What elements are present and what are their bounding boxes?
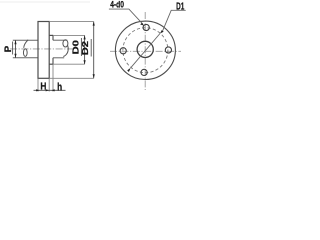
arrow D1 upper-right: [160, 30, 164, 34]
arrow D1 lower-left: [127, 68, 131, 72]
arrow D0 top: [84, 35, 86, 39]
svg-text:h: h: [57, 81, 62, 93]
leader D1: [163, 10, 186, 30]
hub right edge: [52, 35, 54, 40]
shaft break symbol left: [23, 40, 28, 57]
arrow H left: [36, 89, 40, 91]
svg-text:D1: D1: [176, 1, 184, 12]
extension line h right (hub edge): [52, 64, 54, 91]
bolt hole right: [165, 47, 171, 53]
dimension D2 line: [93, 22, 95, 79]
bolt hole top: [143, 24, 149, 30]
arrow P top: [14, 40, 16, 44]
svg-text:P: P: [3, 46, 13, 53]
label D0 underline: [80, 38, 82, 56]
centerline vertical (front view): [144, 12, 146, 90]
svg-text:4-d0: 4-d0: [110, 0, 124, 10]
faint top artifact line: [0, 1, 90, 3]
dimension P line: [15, 40, 17, 58]
arrow D0 bottom: [84, 60, 86, 64]
extension line hub top to D0: [53, 34, 85, 36]
extension line flange bottom to D2: [49, 77, 93, 79]
label D2 underline: [90, 39, 92, 57]
wire shaft top line left segment: [13, 39, 38, 41]
label P underline: [12, 42, 14, 55]
svg-text:D2: D2: [81, 40, 90, 55]
center bore circle: [137, 41, 153, 57]
dimension D0 line: [84, 35, 86, 64]
D1 diameter line (diagonal): [131, 34, 160, 68]
bolt hole bottom: [141, 69, 147, 75]
hub bottom edge: [49, 63, 53, 65]
extension line H left: [37, 79, 39, 92]
hub top edge: [49, 34, 53, 36]
arrow h right: [51, 89, 55, 91]
arrow D2 bottom: [93, 74, 95, 78]
arrow 4-d0: [140, 23, 144, 26]
extension line H right / h left: [48, 79, 50, 92]
dimension line H/h: [34, 89, 66, 91]
wire shaft bottom line right segment: [53, 57, 64, 59]
arrow H right: [46, 89, 50, 91]
arrow P bottom: [14, 54, 16, 58]
bolt circle D1 (dashed): [123, 28, 168, 73]
leader 4-d0: [109, 9, 143, 24]
centerline (side view): [10, 48, 74, 50]
outer flange circle D2: [115, 21, 175, 79]
svg-text:H: H: [40, 81, 46, 92]
wire shaft top line right segment: [53, 39, 67, 41]
bolt hole left: [120, 48, 126, 54]
shaft break symbol right: [63, 40, 68, 57]
extension line flange top to D2: [49, 21, 93, 23]
svg-text:D0: D0: [72, 39, 81, 54]
flange plate (side view): [38, 22, 49, 79]
extension line hub bottom to D0: [53, 63, 85, 65]
centerline horizontal (front view): [110, 50, 181, 52]
wire shaft bottom line left segment: [13, 57, 38, 59]
arrow D2 top: [93, 22, 95, 26]
